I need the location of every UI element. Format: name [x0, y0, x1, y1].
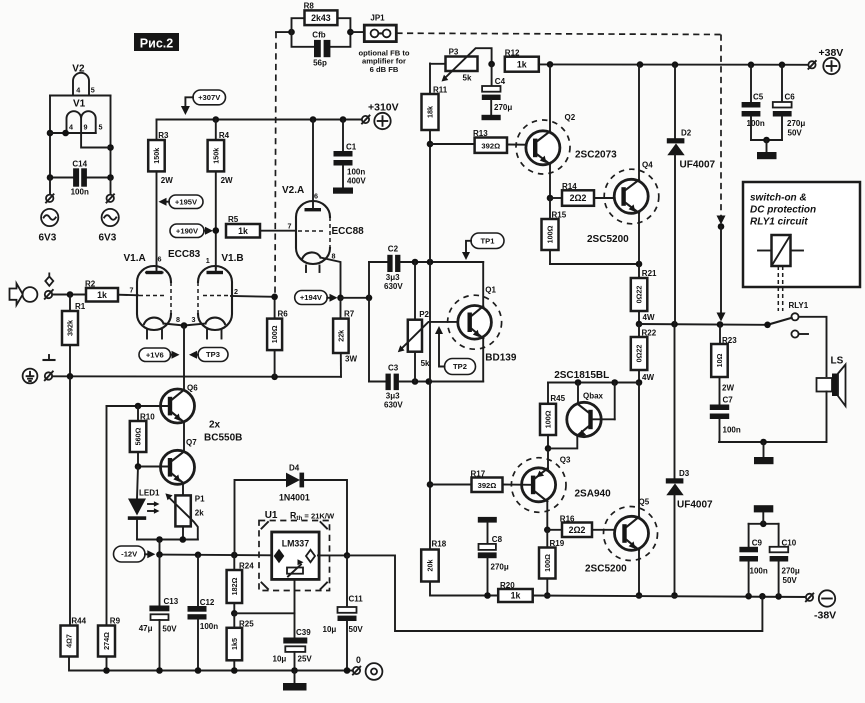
resistor R19 [539, 530, 565, 599]
svg-text:V1.B: V1.B [221, 253, 243, 264]
svg-text:+190V: +190V [176, 226, 199, 235]
svg-text:Q2: Q2 [565, 113, 576, 122]
diode D2 UF4007 [667, 65, 716, 325]
wire bias rail 1815 [548, 370, 639, 386]
resistor R5 [226, 215, 296, 238]
svg-text:C5: C5 [753, 92, 764, 101]
svg-text:C9: C9 [752, 538, 763, 547]
svg-text:C39: C39 [296, 628, 311, 637]
svg-text:P1: P1 [195, 495, 205, 504]
svg-text:-38V: -38V [814, 610, 836, 622]
svg-text:Рис.2: Рис.2 [140, 37, 173, 51]
svg-text:R4: R4 [219, 131, 230, 140]
wire left branch vertical [368, 262, 370, 382]
svg-text:2SC5200: 2SC5200 [585, 564, 627, 575]
svg-text:+1V6: +1V6 [146, 350, 164, 359]
svg-text:18k: 18k [426, 106, 435, 118]
svg-text:U1: U1 [265, 510, 278, 521]
wire heater pin9 tap [81, 133, 110, 148]
svg-text:4: 4 [76, 86, 80, 95]
svg-text:R3: R3 [158, 131, 169, 140]
svg-text:1k: 1k [238, 226, 248, 236]
svg-text:25V: 25V [298, 655, 313, 664]
svg-text:6V3: 6V3 [99, 233, 117, 244]
wire -38V rail [533, 593, 809, 600]
svg-text:LM337: LM337 [282, 539, 309, 549]
svg-text:1k: 1k [97, 290, 107, 300]
wire V1.A grid lead [118, 286, 138, 296]
svg-text:V1: V1 [73, 99, 86, 110]
svg-text:1k5: 1k5 [230, 638, 239, 650]
svg-text:5: 5 [91, 86, 95, 95]
chassis mark [44, 355, 55, 360]
wire speaker return [719, 392, 827, 446]
wire heater baseline V1 [50, 130, 96, 137]
wire LM337 output node [318, 552, 350, 559]
node P3/C4/R12 [488, 61, 495, 68]
capacitor C3 [369, 364, 483, 410]
svg-text:BC550B: BC550B [204, 433, 242, 444]
transistor Q6 BC550B [161, 383, 243, 452]
svg-text:Cfb: Cfb [312, 31, 325, 40]
label TP3 [189, 348, 228, 362]
relay RLY1 coil [758, 235, 803, 266]
svg-text:R9: R9 [110, 617, 121, 626]
svg-text:+310V: +310V [368, 101, 399, 113]
svg-text:1: 1 [206, 256, 210, 265]
wire V1.B grid to node [231, 295, 275, 298]
resistor R45 [540, 383, 566, 452]
transistor Q3 2SA940 [511, 448, 611, 529]
capacitor C7 [710, 396, 741, 443]
speaker LS [817, 356, 846, 407]
capacitor C12 [188, 555, 219, 671]
svg-text:182Ω: 182Ω [230, 577, 239, 595]
label +307V [181, 90, 226, 115]
svg-text:C3: C3 [388, 364, 399, 373]
svg-text:RLY1: RLY1 [789, 301, 809, 310]
wire output rail [636, 321, 768, 328]
svg-text:2Ω2: 2Ω2 [569, 525, 586, 535]
ground terminal [23, 369, 53, 384]
wire dashed sense drop [717, 35, 726, 322]
terminal -38V [806, 590, 836, 621]
svg-text:2SC5200: 2SC5200 [587, 234, 629, 245]
svg-text:100Ω: 100Ω [543, 554, 552, 572]
svg-text:10Ω: 10Ω [715, 353, 724, 367]
node FB stub [276, 29, 295, 36]
resistor R15 [542, 198, 567, 264]
svg-text:Q3: Q3 [560, 455, 571, 464]
svg-text:C1: C1 [346, 143, 357, 152]
label +190V [170, 224, 213, 238]
svg-text:3W: 3W [345, 355, 357, 364]
terminal heater right [107, 178, 115, 203]
figure label Рис.2 [134, 33, 179, 51]
svg-text:100Ω: 100Ω [544, 410, 553, 428]
resistor R11 [422, 85, 448, 130]
svg-text:2W: 2W [722, 384, 734, 393]
svg-text:5k: 5k [421, 359, 430, 368]
wire dashed FB line left [275, 32, 276, 296]
svg-text:C11: C11 [349, 595, 364, 604]
wire heater left vertical [47, 96, 54, 178]
wire LED/P1 bottom [137, 536, 198, 554]
svg-text:270μ: 270μ [491, 563, 509, 572]
svg-text:630V: 630V [384, 282, 403, 291]
svg-text:C12: C12 [200, 598, 215, 607]
svg-text:C13: C13 [164, 597, 179, 606]
terminal 0V [353, 655, 383, 680]
wire LM337 input from -38V [347, 555, 762, 631]
potentiometer P2 [398, 262, 468, 382]
tube V1.A ECC83 [124, 249, 201, 339]
svg-text:270μ: 270μ [782, 567, 800, 576]
wire feedback vertical chain [427, 64, 434, 550]
svg-text:RLY1 circuit: RLY1 circuit [750, 217, 808, 228]
svg-text:8: 8 [176, 315, 180, 324]
svg-text:7: 7 [130, 286, 134, 295]
svg-text:50V: 50V [788, 129, 803, 138]
capacitor C39 [273, 613, 313, 670]
resistor R8 [304, 1, 338, 25]
svg-text:7: 7 [288, 222, 292, 231]
wire dashed FB line top [396, 33, 721, 34]
node Q2 emitter [547, 195, 554, 202]
svg-text:R6: R6 [278, 310, 289, 319]
capacitor C8 [478, 517, 509, 599]
svg-text:D4: D4 [289, 464, 300, 473]
resistor R16 [547, 514, 622, 537]
resistor R23 [711, 325, 737, 405]
capacitor C5 [742, 65, 765, 140]
svg-text:DC protection: DC protection [750, 205, 816, 216]
resistor R3 [148, 120, 173, 269]
capacitor C1 [333, 120, 366, 194]
diode D4 1N4001 [235, 464, 348, 556]
mechanical link dashed [778, 266, 782, 311]
resistor R6 [267, 294, 288, 377]
svg-text:R5: R5 [228, 215, 239, 224]
svg-text:10μ: 10μ [323, 625, 337, 634]
terminal input [45, 273, 54, 299]
svg-text:150k: 150k [152, 148, 161, 164]
wire R15 to rail [550, 261, 642, 268]
svg-text:ECC83: ECC83 [168, 249, 201, 260]
svg-text:56p: 56p [313, 59, 327, 68]
svg-text:TP1: TP1 [481, 236, 496, 245]
svg-text:2W: 2W [221, 176, 233, 185]
svg-text:392Ω: 392Ω [478, 481, 497, 490]
regulator U1 LM337 [259, 510, 335, 591]
ground 0V [283, 671, 307, 691]
transistor Q2 2SC2073 [516, 64, 617, 198]
svg-text:Q4: Q4 [642, 161, 653, 170]
svg-text:50V: 50V [349, 625, 364, 634]
resistor R44 [61, 376, 107, 670]
svg-text:switch-on &: switch-on & [750, 193, 807, 204]
svg-text:100n: 100n [200, 622, 218, 631]
svg-text:BD139: BD139 [485, 353, 517, 364]
svg-text:392Ω: 392Ω [481, 141, 500, 150]
svg-text:TP3: TP3 [206, 350, 220, 359]
svg-text:R1: R1 [75, 302, 86, 311]
svg-text:UF4007: UF4007 [680, 160, 716, 171]
resistor R18 [421, 540, 498, 596]
label TP2 [435, 326, 476, 375]
resistor R1 [62, 295, 86, 377]
svg-text:R45: R45 [550, 394, 565, 403]
svg-text:6 dB FB: 6 dB FB [370, 65, 399, 74]
svg-text:392k: 392k [66, 320, 75, 336]
tube V2.A ECC88 [282, 120, 364, 273]
wire to speaker [799, 317, 827, 376]
svg-text:100n: 100n [71, 187, 89, 196]
wire +38V rail [539, 61, 809, 68]
wire V2.A cathode lead [321, 258, 341, 298]
svg-text:Q5: Q5 [639, 498, 650, 507]
input jack circle [23, 287, 38, 302]
svg-text:C4: C4 [495, 77, 506, 86]
svg-text:-12V: -12V [121, 550, 138, 559]
capacitor C2 [369, 245, 483, 292]
wire Q6 base line [107, 403, 168, 410]
svg-text:6: 6 [158, 255, 162, 264]
label +1V6 [139, 348, 180, 362]
resistor R14 [550, 182, 622, 206]
svg-text:C6: C6 [785, 92, 796, 101]
wire input line [52, 291, 86, 298]
label -12V [114, 546, 156, 562]
svg-text:+307V: +307V [198, 93, 221, 102]
diode D3 UF4007 [666, 324, 713, 599]
transistor Q4 2SC5200 [587, 65, 659, 264]
svg-text:100n: 100n [723, 426, 741, 435]
transistor Q7 BC550B [161, 438, 198, 495]
svg-text:R21: R21 [642, 269, 657, 278]
svg-text:TP2: TP2 [453, 362, 467, 371]
svg-text:D3: D3 [679, 469, 690, 478]
svg-text:50V: 50V [783, 576, 798, 585]
svg-text:C14: C14 [72, 160, 87, 169]
svg-text:4W: 4W [642, 373, 654, 382]
svg-text:R44: R44 [71, 617, 86, 626]
LED1 [128, 467, 160, 540]
svg-text:Q1: Q1 [485, 286, 496, 295]
svg-text:+195V: +195V [175, 197, 198, 206]
resistor R20 [498, 581, 533, 602]
svg-text:4: 4 [69, 123, 73, 132]
svg-text:2Ω2: 2Ω2 [570, 193, 587, 203]
wire R8/Cfb loop [292, 18, 354, 47]
wire heater baseline V2 [50, 95, 111, 97]
svg-text:5: 5 [99, 123, 103, 132]
text optional FB note [358, 48, 409, 73]
svg-text:2W: 2W [161, 176, 173, 185]
svg-text:630V: 630V [384, 401, 403, 410]
capacitor C11 [323, 555, 364, 670]
node cathode/R7 [337, 295, 372, 302]
svg-text:P3: P3 [449, 47, 459, 56]
capacitor C9 [739, 524, 767, 596]
ground C9/C10 [749, 505, 779, 527]
svg-text:47μ: 47μ [139, 624, 153, 633]
resistor R25 [227, 613, 255, 670]
svg-text:274Ω: 274Ω [102, 632, 111, 650]
transistor Q5 2SC5200 [585, 383, 658, 599]
AC source 6V3 left [39, 209, 59, 244]
wire LM337 adj [234, 579, 294, 613]
capacitor C4 [482, 64, 513, 120]
svg-text:560Ω: 560Ω [134, 427, 143, 445]
tube heater V1 [67, 99, 103, 134]
svg-text:1k: 1k [517, 59, 527, 69]
svg-text:R7: R7 [344, 310, 355, 319]
svg-text:0: 0 [356, 655, 361, 665]
svg-text:P2: P2 [419, 310, 429, 319]
svg-text:9: 9 [84, 123, 88, 132]
svg-text:20k: 20k [426, 560, 435, 572]
svg-text:6: 6 [314, 192, 318, 201]
svg-text:ECC88: ECC88 [332, 226, 365, 237]
capacitor C6 [773, 65, 806, 140]
tube V1.B ECC83 [198, 253, 244, 339]
label +195V [159, 195, 204, 209]
label +194V [295, 291, 338, 305]
svg-text:4W: 4W [643, 313, 655, 322]
resistor R10 [130, 406, 155, 470]
svg-text:5k: 5k [463, 74, 472, 83]
svg-text:JP1: JP1 [370, 13, 385, 22]
svg-text:4Ω7: 4Ω7 [65, 634, 74, 648]
svg-text:Q7: Q7 [186, 438, 197, 447]
svg-text:0Ω22: 0Ω22 [635, 286, 644, 304]
capacitor C14 [47, 160, 114, 197]
svg-text:1N4001: 1N4001 [279, 493, 310, 503]
ground speaker [754, 442, 774, 464]
wire Q7 base line [138, 466, 168, 468]
wire 0V rail [103, 667, 352, 674]
ground C5/C6 [751, 137, 782, 160]
resistor R9 [98, 406, 121, 671]
svg-text:100Ω: 100Ω [546, 225, 555, 243]
svg-text:2x: 2x [209, 420, 221, 431]
terminal heater left [46, 178, 54, 203]
resistor R22 [631, 324, 657, 386]
resistor R4 [208, 120, 233, 269]
svg-text:0Ω22: 0Ω22 [635, 345, 644, 363]
svg-text:3: 3 [192, 315, 196, 324]
input arrow symbol [10, 284, 23, 306]
svg-text:22k: 22k [336, 330, 345, 342]
terminal +38V [808, 47, 843, 74]
capacitor C10 [770, 524, 800, 597]
jumper JP1 [350, 13, 396, 41]
svg-text:100Ω: 100Ω [270, 325, 279, 343]
svg-text:2k: 2k [195, 509, 204, 518]
switch RLY1 contacts [764, 301, 809, 338]
svg-text:UF4007: UF4007 [677, 500, 713, 511]
svg-text:C2: C2 [388, 245, 399, 254]
svg-text:2SA940: 2SA940 [575, 489, 612, 500]
resistor R21 [631, 264, 657, 324]
svg-text:100n: 100n [747, 119, 765, 128]
svg-text:400V: 400V [347, 177, 366, 186]
svg-text:LED1: LED1 [139, 489, 160, 498]
svg-text:2k43: 2k43 [311, 13, 331, 23]
svg-text:270μ: 270μ [494, 103, 512, 112]
svg-text:3μ3: 3μ3 [386, 273, 400, 282]
terminal +310V [362, 101, 399, 129]
wire cathode junction [164, 315, 206, 390]
svg-text:150k: 150k [211, 148, 220, 164]
svg-text:100n: 100n [750, 567, 768, 576]
transistor Qbax 2SC1815 [548, 383, 615, 449]
svg-text:Qbax: Qbax [583, 391, 604, 400]
svg-text:1k: 1k [511, 591, 521, 601]
svg-text:10μ: 10μ [273, 655, 287, 664]
svg-text:R18: R18 [432, 540, 447, 549]
svg-text:D2: D2 [681, 129, 692, 138]
label TP1 [462, 233, 504, 260]
svg-text:Q6: Q6 [187, 383, 198, 392]
svg-text:R8: R8 [304, 1, 315, 10]
capacitor Cfb [312, 31, 330, 68]
capacitor C13 [139, 555, 179, 671]
svg-text:6V3: 6V3 [39, 233, 57, 244]
svg-text:50V: 50V [162, 625, 177, 634]
resistor R2 [85, 279, 118, 301]
svg-text:100n: 100n [347, 168, 365, 177]
svg-text:3μ3: 3μ3 [386, 392, 400, 401]
wire B+ rail 310V [157, 116, 362, 123]
resistor R12 [505, 48, 539, 71]
resistor R7 [333, 298, 357, 377]
tube heater V2 [72, 64, 95, 96]
svg-text:V2.A: V2.A [282, 185, 304, 196]
wire ground bus [52, 373, 341, 380]
svg-text:+194V: +194V [300, 293, 323, 302]
AC source 6V3 right [99, 209, 119, 244]
wire heater right vertical [107, 96, 114, 178]
svg-text:270μ: 270μ [787, 119, 805, 128]
svg-text:C8: C8 [492, 535, 503, 544]
svg-text:V1.A: V1.A [124, 253, 146, 264]
relay circuit box [743, 182, 860, 287]
resistor R17 [430, 470, 531, 493]
node Q3 collector [544, 527, 551, 534]
potentiometer P1 [165, 493, 205, 539]
svg-text:2SC2073: 2SC2073 [575, 150, 617, 161]
potentiometer P3 [430, 47, 492, 82]
transistor Q1 BD139 [448, 262, 517, 382]
resistor R24 [227, 555, 255, 617]
resistor R13 [430, 129, 533, 153]
svg-text:LS: LS [831, 356, 844, 367]
wire -12V rail [156, 551, 272, 558]
svg-text:2SC1815BL: 2SC1815BL [554, 370, 609, 381]
svg-text:C7: C7 [723, 396, 734, 405]
svg-text:2: 2 [234, 287, 238, 296]
